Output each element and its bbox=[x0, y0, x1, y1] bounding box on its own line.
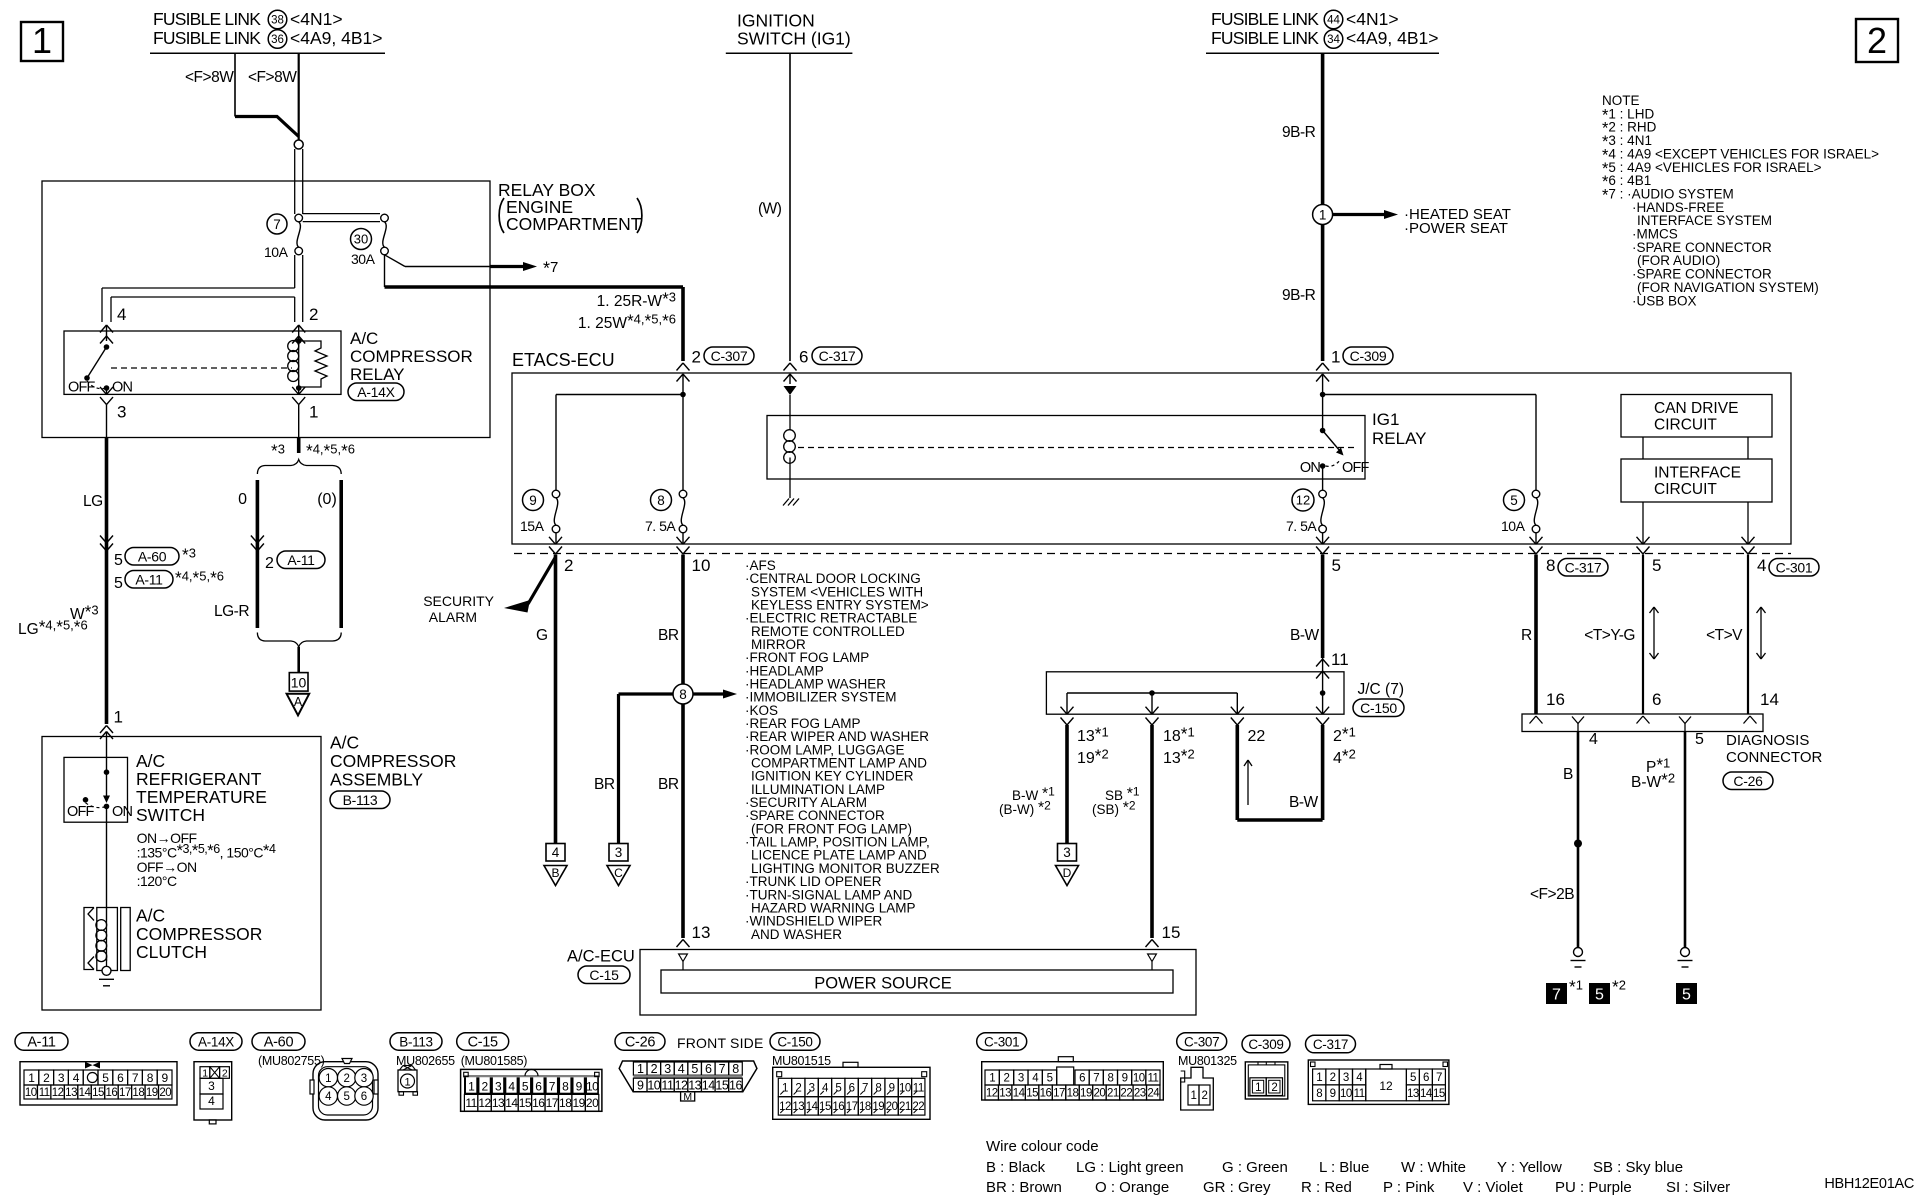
svg-text:C-15: C-15 bbox=[589, 967, 619, 983]
svg-text:8: 8 bbox=[1316, 1088, 1322, 1100]
svg-text:BR: BR bbox=[594, 776, 615, 793]
svg-text:0: 0 bbox=[238, 491, 247, 508]
svg-text:D: D bbox=[1063, 866, 1072, 880]
svg-text:C-307: C-307 bbox=[711, 348, 748, 364]
svg-text:OFF: OFF bbox=[67, 804, 95, 820]
svg-text:<F>2B: <F>2B bbox=[1530, 886, 1574, 903]
svg-text:(MU801585): (MU801585) bbox=[461, 1054, 528, 1068]
svg-text:3: 3 bbox=[495, 1080, 502, 1094]
svg-text:30A: 30A bbox=[351, 251, 376, 267]
svg-text:C-309: C-309 bbox=[1248, 1037, 1283, 1052]
svg-text:(W): (W) bbox=[758, 201, 782, 218]
svg-text:5: 5 bbox=[114, 552, 123, 569]
svg-text:(MU802755): (MU802755) bbox=[258, 1054, 325, 1068]
svg-text:15: 15 bbox=[819, 1101, 831, 1113]
svg-text:A/C: A/C bbox=[136, 906, 165, 926]
svg-text:15: 15 bbox=[1162, 923, 1181, 942]
svg-text:8: 8 bbox=[1107, 1073, 1113, 1085]
svg-text:INTERFACE: INTERFACE bbox=[1654, 465, 1741, 482]
svg-text:PU : Purple: PU : Purple bbox=[1555, 1179, 1632, 1195]
svg-text:C-307: C-307 bbox=[1184, 1034, 1219, 1049]
svg-text:5: 5 bbox=[1682, 987, 1691, 1004]
svg-text:13: 13 bbox=[792, 1101, 804, 1113]
svg-text:10A: 10A bbox=[1501, 518, 1526, 534]
svg-text:2: 2 bbox=[43, 1071, 50, 1085]
svg-text:4: 4 bbox=[117, 305, 126, 324]
svg-text:10: 10 bbox=[899, 1083, 911, 1095]
svg-text:15: 15 bbox=[1026, 1088, 1038, 1100]
svg-text:22: 22 bbox=[1120, 1088, 1132, 1100]
svg-text:17: 17 bbox=[846, 1101, 858, 1113]
svg-text:A/C: A/C bbox=[330, 733, 359, 753]
svg-text:5: 5 bbox=[1047, 1073, 1053, 1085]
svg-text:R : Red: R : Red bbox=[1301, 1179, 1352, 1195]
svg-text:1: 1 bbox=[1316, 1072, 1322, 1084]
svg-text:16: 16 bbox=[532, 1096, 545, 1110]
svg-text:BR: BR bbox=[658, 627, 679, 644]
svg-text:GR : Grey: GR : Grey bbox=[1203, 1179, 1271, 1195]
svg-text:1: 1 bbox=[989, 1073, 995, 1085]
svg-text:5: 5 bbox=[1510, 493, 1518, 508]
svg-text:C-301: C-301 bbox=[1776, 559, 1813, 575]
svg-text:G: G bbox=[536, 627, 548, 644]
svg-text:10: 10 bbox=[1133, 1073, 1145, 1085]
svg-text:OFF: OFF bbox=[68, 380, 96, 396]
svg-text:6: 6 bbox=[849, 1083, 855, 1095]
svg-text:1: 1 bbox=[32, 20, 52, 61]
svg-text:M: M bbox=[683, 1091, 692, 1103]
svg-text:A-11: A-11 bbox=[287, 552, 315, 568]
svg-text:1: 1 bbox=[325, 1073, 331, 1085]
svg-text:IGNITION: IGNITION bbox=[737, 11, 815, 31]
svg-text:16: 16 bbox=[832, 1101, 844, 1113]
svg-text:C-15: C-15 bbox=[468, 1035, 498, 1051]
svg-text:A/C: A/C bbox=[136, 751, 165, 771]
svg-text:ON: ON bbox=[112, 804, 132, 820]
svg-text:A-60: A-60 bbox=[138, 548, 167, 564]
svg-text:SWITCH: SWITCH bbox=[136, 805, 205, 825]
svg-text:13: 13 bbox=[692, 923, 711, 942]
svg-text:8: 8 bbox=[875, 1083, 881, 1095]
svg-text:C-26: C-26 bbox=[625, 1035, 655, 1051]
svg-text:2: 2 bbox=[309, 305, 318, 324]
svg-text:11: 11 bbox=[1147, 1073, 1158, 1085]
svg-text:5: 5 bbox=[1695, 731, 1704, 748]
svg-text:2: 2 bbox=[564, 556, 573, 575]
svg-text:13: 13 bbox=[1407, 1088, 1419, 1100]
svg-text:38: 38 bbox=[271, 15, 284, 27]
svg-text:5: 5 bbox=[835, 1083, 841, 1095]
svg-text:AND WASHER: AND WASHER bbox=[751, 927, 842, 942]
svg-text:14: 14 bbox=[806, 1101, 819, 1113]
svg-text:*7: *7 bbox=[543, 259, 558, 279]
svg-text:6: 6 bbox=[361, 1091, 367, 1103]
svg-text:1: 1 bbox=[404, 1076, 410, 1088]
svg-text:8: 8 bbox=[657, 493, 665, 508]
svg-text:1: 1 bbox=[1319, 207, 1327, 222]
svg-text:3: 3 bbox=[1063, 845, 1071, 860]
svg-text:1: 1 bbox=[1331, 348, 1340, 367]
svg-text:23: 23 bbox=[1134, 1088, 1146, 1100]
svg-text:5: 5 bbox=[1595, 987, 1604, 1004]
svg-text:B: B bbox=[551, 866, 559, 880]
svg-text:5: 5 bbox=[691, 1062, 698, 1076]
svg-text:14: 14 bbox=[702, 1079, 715, 1093]
svg-text:CIRCUIT: CIRCUIT bbox=[1654, 481, 1717, 498]
svg-text:HBH12E01AC: HBH12E01AC bbox=[1824, 1176, 1914, 1192]
svg-text:15: 15 bbox=[92, 1087, 104, 1099]
svg-text:12: 12 bbox=[1296, 493, 1310, 508]
svg-text:16: 16 bbox=[1040, 1088, 1052, 1100]
svg-text:16: 16 bbox=[1546, 690, 1565, 709]
svg-text:C-317: C-317 bbox=[819, 348, 856, 364]
svg-text:7: 7 bbox=[1093, 1073, 1099, 1085]
svg-text:20: 20 bbox=[1094, 1088, 1106, 1100]
svg-text:11: 11 bbox=[1354, 1088, 1365, 1100]
svg-text:14: 14 bbox=[1013, 1088, 1026, 1100]
svg-text:A-11: A-11 bbox=[135, 571, 163, 587]
svg-text:5: 5 bbox=[102, 1071, 109, 1085]
svg-text:A-14X: A-14X bbox=[357, 384, 395, 400]
svg-text:COMPRESSOR: COMPRESSOR bbox=[136, 924, 262, 944]
svg-text:19: 19 bbox=[872, 1101, 884, 1113]
svg-text:4: 4 bbox=[73, 1071, 80, 1085]
svg-text:14: 14 bbox=[1420, 1088, 1433, 1100]
svg-text:4: 4 bbox=[208, 1094, 215, 1108]
svg-text:2: 2 bbox=[795, 1083, 801, 1095]
svg-text:34: 34 bbox=[1327, 34, 1340, 46]
svg-text:9: 9 bbox=[1122, 1073, 1128, 1085]
svg-text:B-W: B-W bbox=[1290, 627, 1320, 644]
svg-text:1: 1 bbox=[468, 1080, 475, 1094]
svg-text:REFRIGERANT: REFRIGERANT bbox=[136, 769, 262, 789]
svg-text:4: 4 bbox=[678, 1062, 685, 1076]
svg-text:J/C (7): J/C (7) bbox=[1358, 681, 1405, 698]
svg-text:A: A bbox=[294, 695, 303, 709]
svg-text:1: 1 bbox=[1191, 1090, 1197, 1102]
svg-text:C-150: C-150 bbox=[1360, 700, 1397, 716]
svg-text:11: 11 bbox=[913, 1083, 924, 1095]
svg-text:FUSIBLE LINK: FUSIBLE LINK bbox=[153, 28, 261, 48]
svg-text:B-113: B-113 bbox=[343, 792, 378, 808]
svg-text:<T>V: <T>V bbox=[1706, 627, 1743, 644]
svg-text:9B-R: 9B-R bbox=[1282, 287, 1316, 304]
svg-text:B: B bbox=[1563, 766, 1573, 783]
svg-text:FUSIBLE LINK: FUSIBLE LINK bbox=[1211, 9, 1319, 29]
svg-text:DIAGNOSIS: DIAGNOSIS bbox=[1726, 732, 1809, 749]
svg-text:FRONT SIDE: FRONT SIDE bbox=[677, 1035, 764, 1051]
svg-text:ASSEMBLY: ASSEMBLY bbox=[330, 770, 423, 790]
svg-text:CLUTCH: CLUTCH bbox=[136, 942, 207, 962]
svg-text:POWER SOURCE: POWER SOURCE bbox=[814, 975, 952, 993]
svg-text:10: 10 bbox=[291, 675, 307, 691]
svg-text:A-11: A-11 bbox=[27, 1035, 56, 1051]
svg-text:COMPRESSOR: COMPRESSOR bbox=[330, 751, 456, 771]
svg-text:ALARM: ALARM bbox=[429, 609, 477, 625]
svg-text:12: 12 bbox=[478, 1096, 491, 1110]
svg-text:6: 6 bbox=[1079, 1073, 1085, 1085]
svg-text:15: 15 bbox=[1433, 1088, 1445, 1100]
svg-text:15A: 15A bbox=[520, 518, 545, 534]
svg-text:20: 20 bbox=[586, 1096, 599, 1110]
svg-text:SWITCH (IG1): SWITCH (IG1) bbox=[737, 29, 851, 49]
svg-text:BR : Brown: BR : Brown bbox=[986, 1179, 1062, 1195]
svg-text:9: 9 bbox=[576, 1080, 583, 1094]
svg-text:8: 8 bbox=[732, 1062, 739, 1076]
svg-text:8: 8 bbox=[1546, 556, 1555, 575]
svg-text:5: 5 bbox=[1410, 1072, 1416, 1084]
svg-text:12: 12 bbox=[52, 1087, 64, 1099]
svg-text:<F>8W: <F>8W bbox=[185, 69, 234, 86]
svg-text:Y : Yellow: Y : Yellow bbox=[1497, 1159, 1562, 1176]
svg-text:9: 9 bbox=[529, 493, 537, 508]
svg-text:9: 9 bbox=[889, 1083, 895, 1095]
svg-text:·POWER SEAT: ·POWER SEAT bbox=[1404, 220, 1508, 237]
svg-text:C-317: C-317 bbox=[1313, 1037, 1348, 1052]
svg-text:7: 7 bbox=[719, 1062, 726, 1076]
svg-text:1: 1 bbox=[114, 708, 123, 727]
svg-text:1: 1 bbox=[202, 1067, 208, 1079]
svg-text:6: 6 bbox=[535, 1080, 542, 1094]
svg-text:9: 9 bbox=[637, 1079, 644, 1093]
svg-text:4: 4 bbox=[1589, 731, 1598, 748]
svg-text:13: 13 bbox=[65, 1087, 77, 1099]
svg-text:A-14X: A-14X bbox=[198, 1034, 234, 1049]
svg-text:B-W: B-W bbox=[1289, 794, 1319, 811]
svg-text:(0): (0) bbox=[317, 491, 337, 508]
svg-text:1: 1 bbox=[28, 1071, 35, 1085]
svg-text:Wire colour code: Wire colour code bbox=[986, 1138, 1099, 1155]
svg-text:12: 12 bbox=[986, 1088, 998, 1100]
svg-text:O : Orange: O : Orange bbox=[1095, 1179, 1169, 1195]
svg-text:21: 21 bbox=[899, 1101, 911, 1113]
svg-text:10: 10 bbox=[1340, 1088, 1352, 1100]
svg-text:TEMPERATURE: TEMPERATURE bbox=[136, 787, 267, 807]
svg-text:C-150: C-150 bbox=[777, 1034, 812, 1049]
svg-text:<4A9, 4B1>: <4A9, 4B1> bbox=[1346, 28, 1438, 48]
svg-text:4: 4 bbox=[325, 1091, 332, 1103]
svg-text:V : Violet: V : Violet bbox=[1463, 1179, 1524, 1195]
svg-text:A/C-ECU: A/C-ECU bbox=[567, 948, 635, 966]
svg-text:9: 9 bbox=[162, 1071, 169, 1085]
svg-text:3: 3 bbox=[117, 403, 126, 422]
svg-text:15: 15 bbox=[519, 1096, 532, 1110]
svg-text:LG-R: LG-R bbox=[214, 603, 249, 620]
svg-text:C-309: C-309 bbox=[1350, 348, 1387, 364]
svg-text:MU801515: MU801515 bbox=[772, 1054, 831, 1068]
svg-text:14: 14 bbox=[1760, 690, 1779, 709]
svg-text:19: 19 bbox=[146, 1087, 158, 1099]
svg-text:9B-R: 9B-R bbox=[1282, 124, 1316, 141]
svg-text:22: 22 bbox=[912, 1101, 924, 1113]
svg-text:COMPRESSOR: COMPRESSOR bbox=[350, 347, 473, 366]
svg-text:30: 30 bbox=[354, 232, 368, 247]
svg-text:4: 4 bbox=[552, 845, 560, 860]
svg-text:2: 2 bbox=[1202, 1090, 1208, 1102]
svg-text:SI : Silver: SI : Silver bbox=[1666, 1179, 1730, 1195]
svg-text:11: 11 bbox=[661, 1079, 674, 1093]
svg-text:3: 3 bbox=[361, 1073, 367, 1085]
svg-text:1: 1 bbox=[782, 1083, 788, 1095]
svg-text:CONNECTOR: CONNECTOR bbox=[1726, 749, 1823, 766]
svg-text:13: 13 bbox=[999, 1088, 1011, 1100]
svg-text:2: 2 bbox=[482, 1080, 489, 1094]
svg-text:5: 5 bbox=[522, 1080, 529, 1094]
svg-text:2: 2 bbox=[1867, 20, 1887, 61]
svg-text:10: 10 bbox=[25, 1087, 37, 1099]
svg-text:CIRCUIT: CIRCUIT bbox=[1654, 417, 1717, 434]
svg-text:20: 20 bbox=[886, 1101, 898, 1113]
svg-text:8: 8 bbox=[147, 1071, 154, 1085]
svg-text:21: 21 bbox=[1107, 1088, 1119, 1100]
svg-text:16: 16 bbox=[106, 1087, 118, 1099]
svg-text:2: 2 bbox=[343, 1073, 349, 1085]
svg-text:10A: 10A bbox=[264, 244, 289, 260]
svg-text:2: 2 bbox=[1330, 1072, 1336, 1084]
svg-text:2: 2 bbox=[692, 348, 701, 367]
svg-text:CAN DRIVE: CAN DRIVE bbox=[1654, 400, 1738, 417]
svg-text:7. 5A: 7. 5A bbox=[645, 518, 676, 534]
svg-text:5: 5 bbox=[343, 1091, 349, 1103]
svg-text:7: 7 bbox=[1552, 987, 1561, 1004]
svg-text:18: 18 bbox=[1067, 1088, 1079, 1100]
svg-text:7: 7 bbox=[132, 1071, 139, 1085]
svg-text:12: 12 bbox=[779, 1101, 791, 1113]
svg-text:2: 2 bbox=[1271, 1082, 1277, 1094]
svg-text:19: 19 bbox=[1080, 1088, 1092, 1100]
svg-text:(B-W) *2: (B-W) *2 bbox=[999, 799, 1051, 818]
svg-text:16: 16 bbox=[729, 1079, 742, 1093]
svg-text:3: 3 bbox=[58, 1071, 65, 1085]
svg-text:A/C: A/C bbox=[350, 329, 378, 348]
svg-text:2: 2 bbox=[222, 1067, 228, 1079]
svg-text:1: 1 bbox=[1255, 1082, 1261, 1094]
svg-text:10: 10 bbox=[586, 1080, 599, 1094]
svg-text:COMPARTMENT: COMPARTMENT bbox=[506, 214, 642, 234]
svg-text:15: 15 bbox=[715, 1079, 728, 1093]
svg-text:6: 6 bbox=[799, 348, 808, 367]
svg-text:14: 14 bbox=[505, 1096, 518, 1110]
svg-text:3: 3 bbox=[809, 1083, 815, 1095]
svg-text:17: 17 bbox=[119, 1087, 131, 1099]
svg-text:G : Green: G : Green bbox=[1222, 1159, 1288, 1176]
svg-text:SECURITY: SECURITY bbox=[423, 593, 494, 609]
svg-text:RELAY: RELAY bbox=[350, 365, 405, 384]
svg-text:<F>8W: <F>8W bbox=[248, 69, 297, 86]
svg-text:11: 11 bbox=[465, 1096, 477, 1110]
svg-text:L : Blue: L : Blue bbox=[1319, 1159, 1369, 1176]
svg-text:LG: LG bbox=[83, 493, 103, 510]
svg-text:18: 18 bbox=[559, 1096, 572, 1110]
svg-text:18: 18 bbox=[859, 1101, 871, 1113]
svg-text:<4N1>: <4N1> bbox=[1346, 9, 1399, 29]
svg-text:3: 3 bbox=[1018, 1073, 1024, 1085]
svg-text:6: 6 bbox=[705, 1062, 712, 1076]
svg-text:44: 44 bbox=[1327, 15, 1340, 27]
svg-text:18: 18 bbox=[132, 1087, 144, 1099]
svg-text:22: 22 bbox=[1248, 728, 1266, 745]
svg-text:8: 8 bbox=[679, 687, 687, 702]
svg-text:14: 14 bbox=[79, 1087, 92, 1099]
svg-text:BR: BR bbox=[658, 776, 679, 793]
svg-text:OFF: OFF bbox=[1342, 460, 1370, 476]
svg-text:4: 4 bbox=[1757, 556, 1766, 575]
svg-text:24: 24 bbox=[1147, 1088, 1160, 1100]
svg-text:8: 8 bbox=[562, 1080, 569, 1094]
svg-text:7: 7 bbox=[273, 217, 281, 232]
svg-text:7. 5A: 7. 5A bbox=[1286, 518, 1317, 534]
svg-text:7: 7 bbox=[862, 1083, 868, 1095]
svg-text:C-26: C-26 bbox=[1733, 773, 1763, 789]
svg-text:ON: ON bbox=[1300, 460, 1320, 476]
svg-text:9: 9 bbox=[1330, 1088, 1336, 1100]
svg-text:17: 17 bbox=[1053, 1088, 1065, 1100]
svg-text:2: 2 bbox=[265, 555, 274, 572]
svg-text:5: 5 bbox=[1652, 556, 1661, 575]
svg-text:7: 7 bbox=[1436, 1072, 1442, 1084]
svg-text:11: 11 bbox=[39, 1087, 50, 1099]
svg-text:A-60: A-60 bbox=[264, 1035, 294, 1051]
svg-text:4: 4 bbox=[508, 1080, 515, 1094]
svg-text:FUSIBLE LINK: FUSIBLE LINK bbox=[1211, 28, 1319, 48]
svg-text:<4N1>: <4N1> bbox=[290, 9, 343, 29]
svg-text:C-317: C-317 bbox=[1565, 559, 1602, 575]
svg-text:1: 1 bbox=[637, 1062, 644, 1076]
svg-text:W : White: W : White bbox=[1401, 1159, 1466, 1176]
svg-text:MU801325: MU801325 bbox=[1178, 1054, 1237, 1068]
svg-text:12: 12 bbox=[1379, 1079, 1393, 1093]
svg-text:<4A9, 4B1>: <4A9, 4B1> bbox=[290, 28, 382, 48]
svg-text:13: 13 bbox=[492, 1096, 505, 1110]
svg-text:36: 36 bbox=[271, 34, 284, 46]
svg-text:C: C bbox=[614, 866, 623, 880]
svg-text:IG1: IG1 bbox=[1372, 410, 1399, 429]
svg-text:·USB BOX: ·USB BOX bbox=[1632, 293, 1697, 308]
svg-text:7: 7 bbox=[549, 1080, 556, 1094]
svg-text:17: 17 bbox=[546, 1096, 559, 1110]
svg-text:10: 10 bbox=[692, 556, 711, 575]
svg-text:<T>Y-G: <T>Y-G bbox=[1584, 627, 1635, 644]
svg-text:2: 2 bbox=[651, 1062, 658, 1076]
svg-text:B-113: B-113 bbox=[399, 1034, 433, 1049]
svg-text:10: 10 bbox=[647, 1079, 660, 1093]
svg-text:5: 5 bbox=[114, 575, 123, 592]
svg-text:P : Pink: P : Pink bbox=[1383, 1179, 1435, 1195]
svg-text:6: 6 bbox=[1652, 690, 1661, 709]
svg-text:6: 6 bbox=[1423, 1072, 1429, 1084]
svg-text:6: 6 bbox=[117, 1071, 124, 1085]
svg-text:3: 3 bbox=[615, 845, 623, 860]
svg-text:FUSIBLE LINK: FUSIBLE LINK bbox=[153, 9, 261, 29]
svg-text:SB : Sky blue: SB : Sky blue bbox=[1593, 1159, 1683, 1176]
svg-text:ETACS-ECU: ETACS-ECU bbox=[512, 350, 615, 370]
svg-text:ON: ON bbox=[112, 380, 132, 396]
svg-text:3: 3 bbox=[1343, 1072, 1349, 1084]
svg-text:B : Black: B : Black bbox=[986, 1159, 1046, 1176]
svg-text:20: 20 bbox=[159, 1087, 171, 1099]
svg-text:3: 3 bbox=[208, 1079, 215, 1093]
svg-text:2: 2 bbox=[1004, 1073, 1010, 1085]
svg-text:11: 11 bbox=[1331, 650, 1349, 669]
svg-text:R: R bbox=[1521, 627, 1532, 644]
svg-text:3: 3 bbox=[664, 1062, 671, 1076]
svg-text:1: 1 bbox=[309, 403, 318, 422]
svg-text:RELAY: RELAY bbox=[1372, 429, 1427, 448]
svg-text:19: 19 bbox=[572, 1096, 585, 1110]
svg-text:C-301: C-301 bbox=[984, 1034, 1019, 1049]
svg-text::120°C: :120°C bbox=[137, 873, 177, 889]
svg-text:LG : Light green: LG : Light green bbox=[1076, 1159, 1184, 1176]
